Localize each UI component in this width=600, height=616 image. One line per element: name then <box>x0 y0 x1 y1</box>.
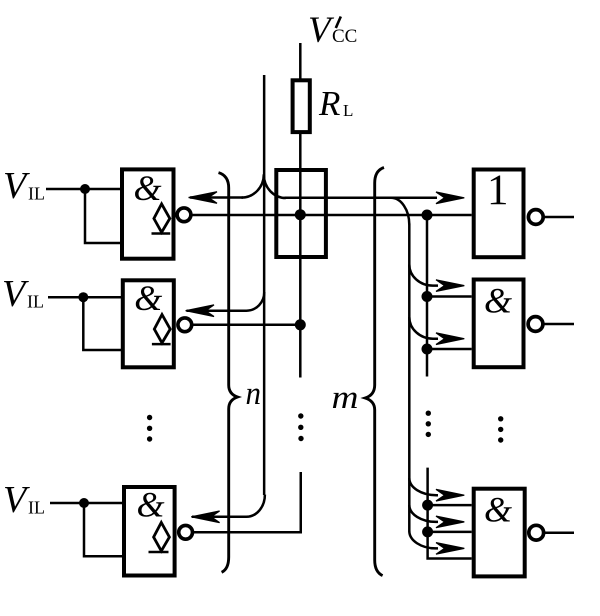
wire arrow branch to gate B <box>187 292 265 311</box>
wire R2 input2 <box>427 348 472 351</box>
svg-text:IL: IL <box>27 292 44 312</box>
svg-text:&: & <box>137 485 165 525</box>
wire arrow branch gate R2 input2 <box>409 317 438 339</box>
OC NAND gate A <box>122 168 191 259</box>
wire arrow branch gate Rm input3 <box>409 531 438 548</box>
resistor value label RL <box>318 84 353 123</box>
input label VIL gate B <box>2 273 44 315</box>
wire arrow branch gate Rm input1 <box>409 478 438 495</box>
arrowhead right row1 <box>436 192 464 204</box>
wire gate C output to bus riser <box>194 472 301 532</box>
arrowhead left row2 <box>186 305 214 317</box>
wire R2 output stub <box>543 323 574 326</box>
arrowhead right Rmb <box>436 516 464 528</box>
svg-text:V: V <box>3 479 30 521</box>
junction dot gate C input tie <box>79 498 89 508</box>
brace m <box>365 168 384 576</box>
wire vertical feed line x408 <box>408 224 411 532</box>
svg-text:V: V <box>3 165 30 207</box>
OC NAND gate B <box>123 278 192 367</box>
svg-text:R: R <box>318 84 340 123</box>
wire branch arc from arrow line down to right feed <box>391 198 409 225</box>
wire VIL input gate C <box>50 502 123 505</box>
svg-text:&: & <box>134 278 162 318</box>
wire hop arc left of cusp <box>242 174 264 197</box>
wire arrow branch gate Rm input2 <box>409 505 438 522</box>
OC NAND gate C <box>124 485 193 576</box>
wire bus tap vertical x427 upper <box>426 215 429 377</box>
arrowhead right R2b <box>436 333 464 345</box>
svg-text:1: 1 <box>487 167 509 214</box>
input label VIL gate A <box>3 165 45 207</box>
svg-text:V: V <box>308 10 335 51</box>
wire arrow branch gate R2 input1 <box>409 265 438 286</box>
wire hop arc right of cusp <box>264 174 286 198</box>
svg-text:n: n <box>246 376 262 412</box>
wire VIL input gate B <box>48 296 122 299</box>
wire Rm output stub <box>544 531 574 534</box>
wire V'CC lead <box>299 43 302 80</box>
wire R2 input1 <box>427 295 472 298</box>
wire VIL input gate A <box>46 188 121 191</box>
wire gate A input tie <box>85 189 121 243</box>
resistor RL <box>293 80 310 132</box>
junction dot R2 input2 <box>422 344 433 355</box>
junction dot Rm input1 <box>422 500 433 511</box>
arrowhead left row3 <box>191 511 219 523</box>
load gate Rm (AND) <box>474 489 544 577</box>
wire gate B output to bus <box>192 324 300 327</box>
ellipsis bus line <box>298 413 304 441</box>
junction dot R2 input1 <box>422 291 433 302</box>
load gate R2 (AND) <box>474 280 543 368</box>
arrowhead right Rmc <box>436 543 464 555</box>
load gate R1 (OR, "1") <box>474 167 543 257</box>
wire Rm input1 <box>428 504 472 507</box>
input label VIL gate C <box>3 479 45 521</box>
svg-text:IL: IL <box>28 184 45 204</box>
wire arrow branch to gate C <box>192 495 265 517</box>
wire bus tap vertical x427 lower with corner to Rm input3 <box>428 468 472 559</box>
prime mark of V'CC <box>336 17 341 29</box>
svg-text:&: & <box>484 490 512 530</box>
junction dot gate A input tie <box>80 184 90 194</box>
svg-text:IL: IL <box>28 498 45 518</box>
svg-text:m: m <box>332 380 359 416</box>
brace n <box>219 173 238 573</box>
arrowhead right Rma <box>436 489 464 501</box>
ellipsis right gate column <box>498 416 503 443</box>
arrowhead right R2a <box>436 280 464 292</box>
wire R1 output stub <box>543 216 574 219</box>
wire resistor to bus node <box>299 133 302 378</box>
ellipsis right tap line <box>426 411 431 438</box>
junction dot bus center <box>295 209 306 220</box>
wire vertical feed line x264 <box>263 75 266 495</box>
junction dot right bus tap <box>422 210 433 221</box>
svg-text:L: L <box>343 101 353 120</box>
wire Rm input2 <box>428 531 472 534</box>
wire gate C input tie <box>84 503 123 556</box>
junction dot Rm input2 <box>422 526 433 537</box>
wire current arrow line row1 (right segment) <box>285 197 438 200</box>
wire wired-AND horizontal line <box>191 214 472 217</box>
svg-text:CC: CC <box>332 26 357 47</box>
arrowhead left row1 <box>189 192 217 204</box>
bus connector box <box>276 170 326 257</box>
svg-text:&: & <box>484 281 512 321</box>
wire current arrow line row1 (left segment) <box>190 196 243 199</box>
ellipsis left driver column <box>147 415 152 442</box>
svg-text:V: V <box>2 273 29 315</box>
svg-text:&: & <box>134 168 162 208</box>
junction dot gate B input tie <box>78 292 88 302</box>
junction dot gate B output on bus <box>295 319 306 330</box>
wire gate B input tie <box>83 297 122 350</box>
net V'CC label <box>308 10 357 51</box>
